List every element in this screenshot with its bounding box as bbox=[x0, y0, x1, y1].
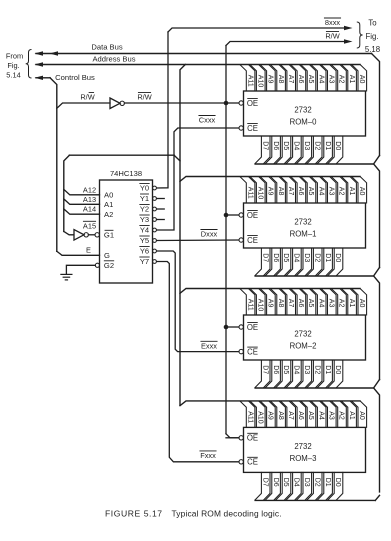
ROM-0 data pins D7-D0 bbox=[255, 136, 343, 164]
svg-text:A1: A1 bbox=[348, 411, 355, 420]
svg-text:A1: A1 bbox=[104, 200, 113, 209]
svg-text:CE: CE bbox=[247, 347, 258, 356]
svg-text:A11: A11 bbox=[246, 299, 253, 311]
svg-text:D4: D4 bbox=[293, 141, 300, 150]
label Dxxx bbox=[201, 230, 218, 239]
svg-text:A1: A1 bbox=[348, 299, 355, 308]
wire Control Bus bbox=[35, 73, 96, 82]
wire Y1 stub bbox=[157, 198, 165, 200]
label 74HC138 bbox=[110, 169, 142, 178]
svg-text:A6: A6 bbox=[297, 187, 304, 196]
svg-text:Dxxx: Dxxx bbox=[201, 230, 218, 239]
svg-text:A2: A2 bbox=[338, 187, 345, 196]
svg-text:5.18: 5.18 bbox=[365, 45, 380, 54]
svg-text:D3: D3 bbox=[303, 365, 310, 374]
svg-text:A2: A2 bbox=[104, 210, 113, 219]
svg-text:A11: A11 bbox=[246, 411, 253, 423]
wire Y6 to Exxx bbox=[157, 251, 239, 352]
svg-text:Fxxx: Fxxx bbox=[200, 451, 216, 460]
svg-text:D0: D0 bbox=[334, 478, 341, 487]
svg-text:A4: A4 bbox=[317, 187, 324, 196]
svg-text:R/W: R/W bbox=[80, 93, 94, 102]
label R/W-bar bbox=[137, 93, 151, 102]
svg-text:A3: A3 bbox=[328, 411, 335, 420]
wire Address Bus bbox=[35, 54, 361, 66]
svg-text:A6: A6 bbox=[297, 299, 304, 308]
wire G2 to ground bbox=[66, 265, 95, 274]
svg-text:2732: 2732 bbox=[294, 218, 311, 227]
decoder U1 74HC138 box bbox=[100, 180, 153, 283]
svg-text:A9: A9 bbox=[267, 187, 274, 196]
svg-text:ROM–1: ROM–1 bbox=[290, 230, 317, 239]
pin label Y2 bbox=[140, 205, 149, 214]
ROM-3 OE pin bbox=[239, 433, 258, 442]
pin Y5 bubble bbox=[153, 239, 157, 243]
svg-text:A0: A0 bbox=[358, 187, 365, 196]
pin Y3 bubble bbox=[153, 218, 157, 222]
label caption bbox=[105, 508, 282, 518]
ROM-1 data pins D7-D0 bbox=[255, 248, 343, 276]
wire R/W-bar to OE feed bbox=[124, 102, 226, 104]
node junction OE-1 bbox=[224, 213, 229, 218]
svg-text:ROM–2: ROM–2 bbox=[290, 342, 317, 351]
wire ROM-1 address bus bbox=[180, 177, 360, 182]
svg-text:D6: D6 bbox=[272, 478, 279, 487]
svg-text:D0: D0 bbox=[334, 253, 341, 262]
label Fxxx bbox=[200, 451, 216, 460]
svg-text:A5: A5 bbox=[307, 299, 314, 308]
svg-text:8xxx: 8xxx bbox=[325, 18, 341, 27]
svg-text:D6: D6 bbox=[272, 365, 279, 374]
svg-text:A9: A9 bbox=[267, 411, 274, 420]
wire A13 bbox=[64, 199, 100, 204]
pin Y2 bubble bbox=[153, 207, 157, 211]
wire ROM-0 data line bbox=[255, 163, 374, 165]
svg-text:A4: A4 bbox=[317, 75, 324, 84]
svg-text:A14: A14 bbox=[83, 205, 96, 214]
pin label Y5 bbox=[140, 236, 149, 245]
label ROM-0 bbox=[290, 106, 318, 127]
label Exxx bbox=[201, 341, 217, 350]
svg-text:CE: CE bbox=[247, 124, 258, 133]
ROM-0 OE pin bbox=[239, 99, 258, 108]
svg-text:ROM–0: ROM–0 bbox=[290, 118, 318, 127]
svg-text:D0: D0 bbox=[334, 141, 341, 150]
label A15 bbox=[83, 221, 96, 230]
wire A12 bbox=[64, 189, 100, 195]
label ROM-3 bbox=[290, 442, 317, 463]
wire OE feed vertical bbox=[226, 46, 239, 438]
svg-text:D5: D5 bbox=[282, 253, 289, 262]
svg-text:Fig.: Fig. bbox=[7, 61, 19, 70]
pin label G2 bbox=[104, 261, 114, 270]
svg-text:Y7: Y7 bbox=[140, 257, 149, 266]
svg-text:A7: A7 bbox=[287, 299, 294, 308]
svg-text:D4: D4 bbox=[293, 365, 300, 374]
pin label Y3 bbox=[140, 215, 149, 224]
pin label Y0 bbox=[140, 184, 149, 193]
svg-text:A6: A6 bbox=[297, 411, 304, 420]
label From Fig. 5.14 bbox=[6, 52, 23, 80]
svg-text:D6: D6 bbox=[272, 141, 279, 150]
svg-text:D1: D1 bbox=[324, 365, 331, 374]
svg-text:A11: A11 bbox=[246, 75, 253, 87]
svg-text:A8: A8 bbox=[277, 187, 284, 196]
wire Y0 to 8xxx bbox=[157, 32, 168, 188]
svg-text:CE: CE bbox=[247, 236, 258, 245]
pin label Y6 bbox=[140, 247, 149, 256]
svg-text:Data Bus: Data Bus bbox=[91, 43, 122, 52]
inverter U2 R/W bbox=[110, 98, 124, 109]
svg-text:D7: D7 bbox=[261, 365, 268, 374]
svg-text:D1: D1 bbox=[324, 141, 331, 150]
svg-text:D1: D1 bbox=[324, 478, 331, 487]
svg-text:Exxx: Exxx bbox=[201, 341, 217, 350]
ROM-1 address pins A11-A0 bbox=[240, 177, 366, 203]
svg-text:OE: OE bbox=[247, 323, 258, 332]
svg-text:Y3: Y3 bbox=[140, 215, 149, 224]
svg-text:A6: A6 bbox=[297, 75, 304, 84]
pin label A0 bbox=[104, 190, 113, 199]
svg-text:Y6: Y6 bbox=[140, 247, 149, 256]
svg-text:D7: D7 bbox=[261, 253, 268, 262]
svg-text:A10: A10 bbox=[256, 299, 263, 312]
svg-text:A9: A9 bbox=[267, 75, 274, 84]
svg-text:A0: A0 bbox=[104, 190, 113, 199]
label ROM-2 bbox=[290, 330, 317, 351]
label 8xxx bbox=[324, 18, 340, 27]
pin label Y1 bbox=[140, 194, 149, 203]
svg-text:5.14: 5.14 bbox=[6, 71, 20, 80]
wire A15 bbox=[64, 231, 74, 234]
svg-text:D0: D0 bbox=[334, 365, 341, 374]
ROM-0 CE pin bbox=[239, 124, 258, 133]
svg-text:A10: A10 bbox=[256, 411, 263, 424]
pin label Y7 bbox=[140, 257, 149, 266]
svg-text:From: From bbox=[6, 52, 23, 61]
svg-text:Control Bus: Control Bus bbox=[55, 73, 95, 82]
svg-text:Y5: Y5 bbox=[140, 236, 149, 245]
pin Y0 bubble bbox=[153, 186, 157, 190]
ROM-3 data pins D7-D0 bbox=[255, 472, 343, 500]
ROM-1 box bbox=[244, 203, 366, 248]
wire Y2 stub bbox=[157, 208, 165, 210]
svg-text:R/W: R/W bbox=[137, 93, 151, 102]
svg-text:A5: A5 bbox=[307, 75, 314, 84]
svg-text:To: To bbox=[368, 19, 377, 28]
svg-text:A15: A15 bbox=[83, 221, 96, 230]
svg-text:G: G bbox=[104, 251, 110, 260]
svg-text:E: E bbox=[86, 245, 91, 254]
svg-text:A2: A2 bbox=[338, 299, 345, 308]
svg-text:A10: A10 bbox=[256, 75, 263, 88]
svg-text:A2: A2 bbox=[338, 411, 345, 420]
svg-text:A8: A8 bbox=[277, 299, 284, 308]
pin label A1 bbox=[104, 200, 113, 209]
svg-text:Y1: Y1 bbox=[140, 194, 149, 203]
wire E bbox=[57, 251, 100, 255]
pin Y4 bubble bbox=[153, 228, 157, 232]
svg-text:A2: A2 bbox=[338, 75, 345, 84]
wire R/W-bar to Fig 5.18 bbox=[226, 39, 353, 45]
svg-text:A3: A3 bbox=[328, 299, 335, 308]
ROM-3 box bbox=[244, 427, 366, 472]
svg-text:D4: D4 bbox=[293, 478, 300, 487]
pin Y6 bubble bbox=[153, 249, 157, 253]
wire OE-0 stub bbox=[226, 102, 239, 104]
svg-text:G1: G1 bbox=[104, 230, 114, 239]
wire 8xxx to Fig 5.18 bbox=[168, 26, 353, 32]
wire Y3 stub bbox=[157, 219, 165, 221]
svg-text:D2: D2 bbox=[313, 253, 320, 262]
label E bbox=[86, 245, 91, 254]
pin label G1 bbox=[104, 230, 114, 239]
svg-text:A9: A9 bbox=[267, 299, 274, 308]
label ROM-1 bbox=[290, 218, 317, 239]
svg-text:2732: 2732 bbox=[294, 442, 311, 451]
svg-text:A3: A3 bbox=[328, 187, 335, 196]
wire OE-2 stub bbox=[226, 326, 239, 328]
svg-text:A5: A5 bbox=[307, 187, 314, 196]
ROM-1 CE pin bbox=[239, 236, 258, 245]
ROM-1 OE pin bbox=[239, 211, 258, 220]
svg-text:Fig.: Fig. bbox=[366, 32, 379, 41]
svg-text:Typical ROM decoding logic.: Typical ROM decoding logic. bbox=[172, 508, 282, 518]
svg-text:D5: D5 bbox=[282, 478, 289, 487]
svg-text:A13: A13 bbox=[83, 195, 96, 204]
pin G2 bubble bbox=[95, 263, 99, 267]
svg-text:CE: CE bbox=[247, 458, 258, 467]
svg-text:2732: 2732 bbox=[294, 330, 311, 339]
svg-text:A0: A0 bbox=[358, 411, 365, 420]
brace left bbox=[26, 50, 32, 79]
ROM-3 CE pin bbox=[239, 457, 258, 466]
inverter U3 A15 bbox=[74, 230, 88, 241]
ROM-2 OE pin bbox=[239, 323, 258, 332]
svg-text:D5: D5 bbox=[282, 141, 289, 150]
wire ROM-1 data line bbox=[255, 275, 374, 277]
wire Y7 to Fxxx bbox=[157, 262, 239, 462]
svg-text:A3: A3 bbox=[328, 75, 335, 84]
ROM-2 CE pin bbox=[239, 347, 258, 356]
svg-text:D2: D2 bbox=[313, 365, 320, 374]
svg-text:OE: OE bbox=[247, 434, 258, 443]
svg-text:D3: D3 bbox=[303, 253, 310, 262]
wire control bus drop bbox=[50, 78, 57, 252]
wire R/W tap bbox=[57, 103, 110, 108]
node junction OE-0 bbox=[224, 101, 229, 106]
svg-text:A8: A8 bbox=[277, 75, 284, 84]
pin label Y4 bbox=[140, 226, 149, 235]
pin label A2 bbox=[104, 210, 113, 219]
wire Y5 to Dxxx bbox=[157, 239, 239, 242]
svg-text:A1: A1 bbox=[348, 75, 355, 84]
svg-text:OE: OE bbox=[247, 211, 258, 220]
svg-text:74HC138: 74HC138 bbox=[110, 169, 142, 178]
svg-text:D2: D2 bbox=[313, 141, 320, 150]
svg-text:D3: D3 bbox=[303, 478, 310, 487]
wire OE-3 stub bbox=[226, 437, 239, 439]
label To Fig. 5.18 bbox=[365, 19, 380, 55]
svg-text:Y4: Y4 bbox=[140, 226, 149, 235]
svg-text:D3: D3 bbox=[303, 141, 310, 150]
svg-text:Address Bus: Address Bus bbox=[92, 54, 135, 63]
wire ROM-2 address bus bbox=[180, 289, 360, 294]
label A13 bbox=[83, 195, 96, 204]
ROM-2 data pins D7-D0 bbox=[255, 360, 343, 388]
svg-text:D1: D1 bbox=[324, 253, 331, 262]
svg-text:A7: A7 bbox=[287, 411, 294, 420]
label Cxxx bbox=[199, 116, 216, 125]
svg-text:A7: A7 bbox=[287, 75, 294, 84]
svg-text:D2: D2 bbox=[313, 478, 320, 487]
svg-text:ROM–3: ROM–3 bbox=[290, 454, 317, 463]
wire ROM-3 address bus bbox=[180, 401, 360, 406]
svg-text:A4: A4 bbox=[317, 299, 324, 308]
svg-text:A5: A5 bbox=[307, 411, 314, 420]
ROM-3 address pins A11-A0 bbox=[240, 401, 366, 427]
svg-text:A12: A12 bbox=[83, 185, 96, 194]
wire ROM-3 data line bbox=[255, 499, 375, 501]
wire data bus right vertical bbox=[372, 54, 380, 501]
ROM-0 address pins A11-A0 bbox=[240, 65, 366, 91]
svg-text:A0: A0 bbox=[358, 75, 365, 84]
node junction OE-2 bbox=[224, 325, 229, 330]
pin Y1 bubble bbox=[153, 197, 157, 201]
label R/W bbox=[80, 93, 94, 102]
wire address branch left bbox=[64, 155, 180, 231]
label A14 bbox=[83, 205, 96, 214]
brace right bbox=[357, 22, 363, 48]
wire address drop right bbox=[180, 65, 185, 406]
wire A15-bar to G1 bbox=[88, 234, 95, 236]
svg-text:A1: A1 bbox=[348, 187, 355, 196]
svg-text:Y0: Y0 bbox=[140, 184, 149, 193]
svg-text:A7: A7 bbox=[287, 187, 294, 196]
wire A14 bbox=[64, 209, 100, 214]
svg-text:FIGURE 5.17: FIGURE 5.17 bbox=[105, 508, 163, 518]
svg-text:D4: D4 bbox=[293, 253, 300, 262]
wire ROM-2 data line bbox=[255, 387, 374, 389]
svg-text:A10: A10 bbox=[256, 187, 263, 200]
svg-text:A8: A8 bbox=[277, 411, 284, 420]
pin Y7 bubble bbox=[153, 260, 157, 264]
svg-text:A11: A11 bbox=[246, 187, 253, 199]
ROM-0 box bbox=[244, 91, 366, 136]
wire OE-1 stub bbox=[226, 214, 239, 216]
pin G1 bubble bbox=[95, 233, 99, 237]
svg-text:OE: OE bbox=[247, 99, 258, 108]
wire Data Bus bbox=[35, 43, 372, 56]
ground bbox=[61, 274, 72, 280]
svg-text:Cxxx: Cxxx bbox=[199, 116, 216, 125]
svg-text:D7: D7 bbox=[261, 478, 268, 487]
label R/W-bar top bbox=[325, 32, 339, 41]
svg-text:G2: G2 bbox=[104, 261, 114, 270]
svg-text:2732: 2732 bbox=[294, 106, 311, 115]
svg-text:R/W: R/W bbox=[325, 32, 339, 41]
svg-text:A0: A0 bbox=[358, 299, 365, 308]
svg-text:Y2: Y2 bbox=[140, 205, 149, 214]
svg-text:A4: A4 bbox=[317, 411, 324, 420]
ROM-2 box bbox=[244, 315, 366, 360]
svg-text:D5: D5 bbox=[282, 365, 289, 374]
ROM-2 address pins A11-A0 bbox=[240, 289, 366, 315]
svg-text:D6: D6 bbox=[272, 253, 279, 262]
svg-text:D7: D7 bbox=[261, 141, 268, 150]
wire Y4 to Cxxx bbox=[157, 128, 239, 230]
label A12 bbox=[83, 185, 96, 194]
pin label G bbox=[104, 251, 110, 260]
